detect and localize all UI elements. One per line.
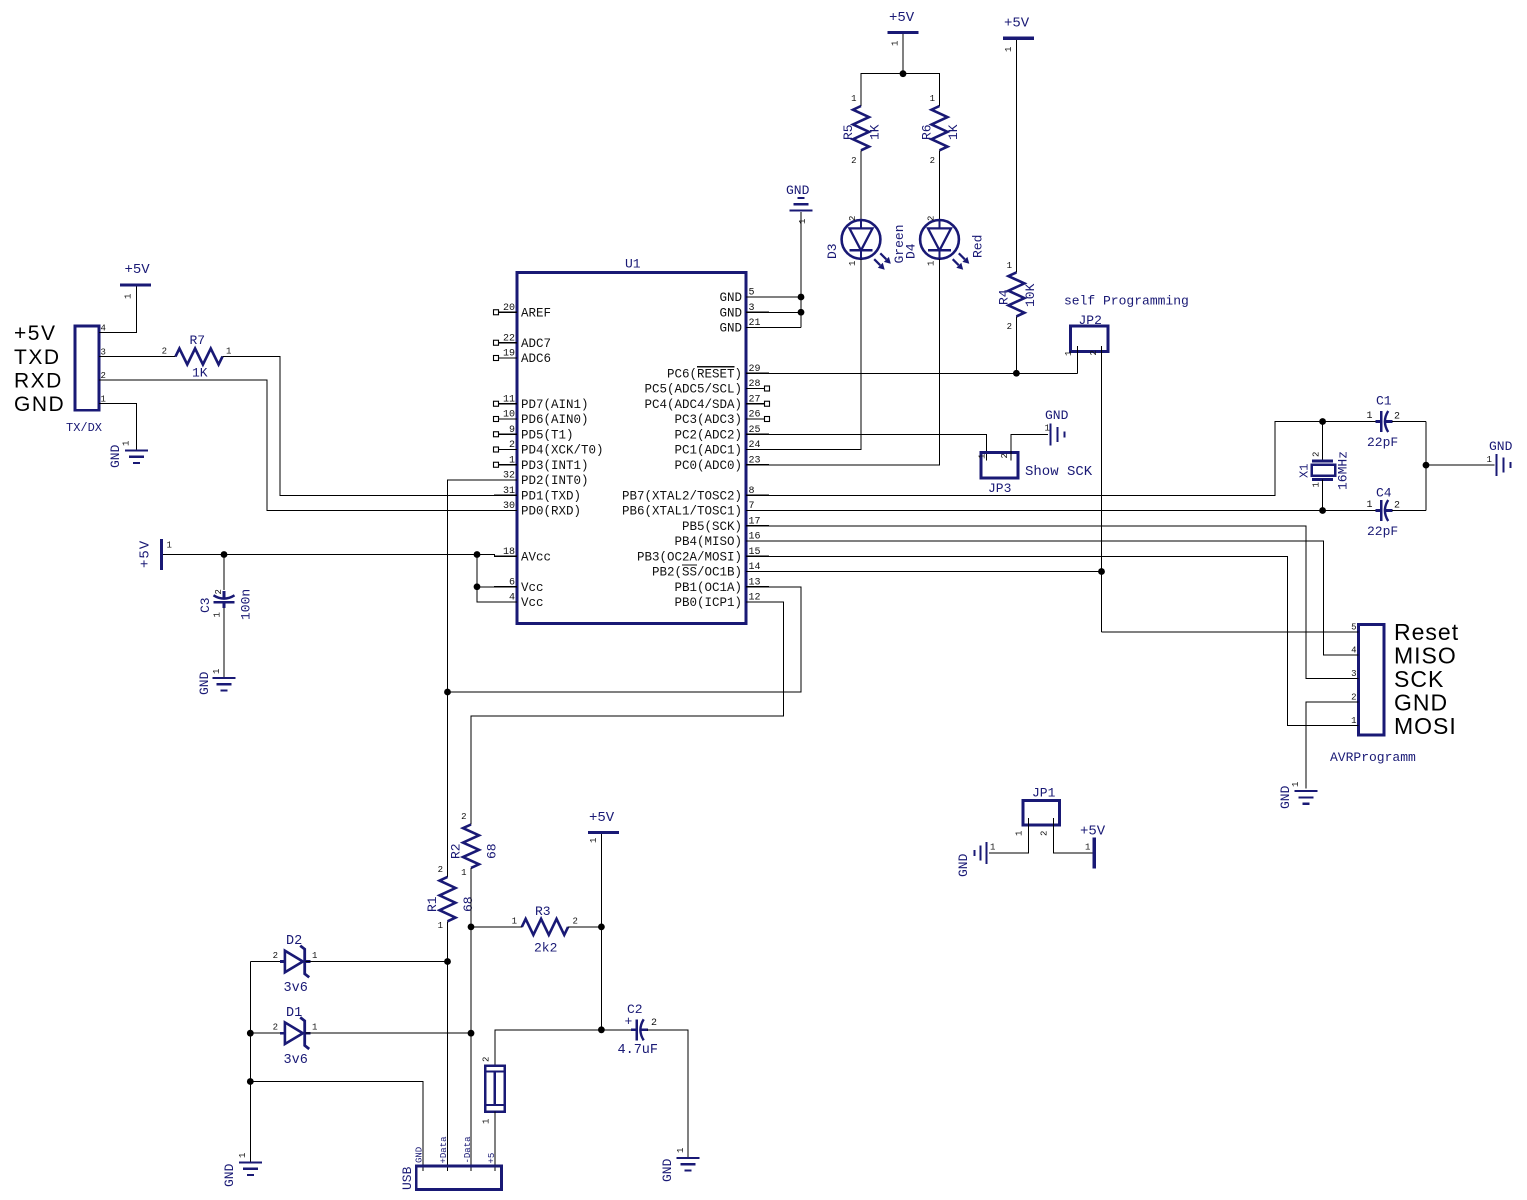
svg-text:GND: GND — [719, 322, 742, 336]
wire SCK net — [769, 526, 1336, 679]
ic U1 pin 19 ADC6 — [499, 357, 518, 359]
power +5V (JP1) — [1093, 837, 1096, 868]
svg-text:22pF: 22pF — [1367, 524, 1398, 539]
svg-text:PB4(MISO): PB4(MISO) — [674, 535, 742, 549]
svg-text:31: 31 — [503, 486, 515, 497]
svg-text:+5V: +5V — [889, 10, 915, 26]
power +5V (TX/DX) — [120, 283, 151, 286]
svg-text:1: 1 — [122, 441, 132, 446]
wire C3 bottom — [223, 608, 225, 678]
ic U1 pin 1 PD3(INT1) — [499, 464, 518, 466]
resistor R1 — [440, 877, 456, 921]
diode D2 — [280, 960, 285, 963]
svg-text:R2: R2 — [449, 843, 464, 859]
svg-text:22pF: 22pF — [1367, 435, 1398, 450]
svg-text:PC1(ADC1): PC1(ADC1) — [674, 444, 742, 458]
connector JP1 body — [1023, 801, 1059, 825]
wire GND pin3 — [769, 311, 801, 313]
svg-text:2: 2 — [509, 440, 515, 451]
crystal X1 — [1312, 459, 1333, 462]
wire X1 bottom lead — [1322, 479, 1324, 510]
ic U1 pin 3 GND — [746, 311, 769, 313]
junction Vcc pin6 — [474, 583, 481, 590]
ic U1 pin 21 GND — [746, 327, 769, 329]
svg-text:1: 1 — [1085, 843, 1090, 853]
wire C2 right — [647, 1030, 688, 1157]
svg-text:2: 2 — [1007, 322, 1012, 332]
svg-text:2: 2 — [438, 865, 443, 875]
svg-text:3: 3 — [749, 303, 755, 314]
junction gnd branch — [247, 1078, 254, 1085]
junction reset — [1013, 370, 1020, 377]
connector USB body — [416, 1166, 501, 1189]
svg-text:15: 15 — [749, 547, 761, 558]
svg-text:30: 30 — [503, 501, 515, 512]
junction D1 anode — [247, 1030, 254, 1037]
svg-text:3: 3 — [1351, 669, 1356, 679]
connector JP2 body — [1070, 326, 1108, 351]
ic U1 pin 9 PD5(T1) — [499, 433, 518, 435]
wire Vcc pin6 — [477, 586, 494, 588]
wire R2 to USB DMINUS — [470, 868, 472, 1171]
svg-text:JP2: JP2 — [1079, 313, 1102, 328]
svg-text:RXD: RXD — [14, 370, 63, 393]
svg-text:5: 5 — [1351, 622, 1356, 632]
ic U1 pin 11 PD7(AIN1) — [499, 403, 518, 405]
svg-text:16MHz: 16MHz — [1336, 451, 1351, 490]
svg-text:R1: R1 — [425, 896, 440, 912]
ic U1 pin 4 Vcc — [494, 601, 517, 603]
led D4 — [920, 220, 959, 259]
svg-text:GND: GND — [1394, 690, 1448, 716]
wire bottom node to C4 — [1323, 510, 1376, 512]
junction gnd5 — [798, 294, 805, 301]
svg-text:C2: C2 — [627, 1002, 643, 1017]
svg-text:MISO: MISO — [1394, 643, 1457, 669]
svg-text:PB7(XTAL2/TOSC2): PB7(XTAL2/TOSC2) — [622, 489, 742, 503]
resistor R7 — [176, 349, 223, 365]
svg-text:GND: GND — [1278, 785, 1293, 809]
svg-text:GND: GND — [197, 671, 212, 695]
svg-text:1: 1 — [461, 868, 466, 878]
svg-text:PB2(SS/OC1B): PB2(SS/OC1B) — [652, 566, 742, 580]
ic U1 pin 29 PC6(RESET) — [746, 372, 769, 374]
ic U1 pin 17 PB5(SCK) — [746, 525, 769, 527]
svg-text:27: 27 — [749, 394, 761, 405]
wire to gnd — [1426, 464, 1495, 466]
wire PB0 net — [471, 602, 783, 825]
capacitor C4 — [1376, 509, 1382, 512]
svg-text:D2: D2 — [286, 934, 302, 949]
svg-text:+5V: +5V — [589, 810, 615, 826]
svg-text:PB5(SCK): PB5(SCK) — [682, 520, 742, 534]
svg-text:2: 2 — [651, 1018, 657, 1029]
svg-text:1K: 1K — [192, 366, 208, 381]
svg-text:TXD: TXD — [14, 346, 61, 369]
svg-text:AREF: AREF — [521, 306, 551, 320]
wire R1 to USB DPLUS — [447, 921, 449, 1171]
wire X1 top lead — [1322, 422, 1324, 460]
junction R3 tap — [468, 924, 475, 931]
svg-text:+5V: +5V — [1004, 16, 1030, 32]
svg-text:19: 19 — [503, 349, 515, 360]
svg-text:-Data: -Data — [463, 1136, 473, 1164]
svg-text:1K: 1K — [868, 124, 883, 140]
capacitor C1 — [1376, 420, 1382, 423]
junction C2 node — [598, 1026, 605, 1033]
power +5V (LEDs) — [888, 31, 919, 34]
svg-text:10K: 10K — [1023, 283, 1038, 307]
wire MISO net — [769, 541, 1336, 655]
power +5V (R3) — [588, 831, 619, 834]
svg-text:PC6(RESET): PC6(RESET) — [667, 367, 742, 381]
connector JP2 pin1 — [1076, 346, 1078, 373]
capacitor C3 — [223, 591, 226, 599]
wire D2 anode — [250, 961, 284, 963]
svg-text:GND: GND — [14, 393, 65, 416]
svg-text:D4: D4 — [904, 243, 919, 259]
svg-text:29: 29 — [749, 364, 761, 375]
svg-text:PB0(ICP1): PB0(ICP1) — [674, 596, 742, 610]
junction LED rail — [900, 70, 907, 77]
connector JP2 pin2 — [1101, 346, 1103, 632]
ic U1 body — [517, 273, 746, 624]
svg-text:+5V: +5V — [14, 322, 56, 345]
svg-text:PC5(ADC5/SCL): PC5(ADC5/SCL) — [644, 383, 742, 397]
fuse F1 — [485, 1066, 505, 1112]
svg-text:13: 13 — [749, 577, 761, 588]
wire D1 cathode — [305, 1032, 471, 1034]
ic U1 pin 14 PB2(SS/OC1B) — [746, 571, 769, 573]
svg-text:26: 26 — [749, 410, 761, 421]
svg-text:3v6: 3v6 — [284, 1053, 308, 1068]
wire PB7 net — [769, 422, 1323, 496]
wire to gnd corner — [249, 1033, 251, 1081]
junction gnd3 — [798, 309, 805, 316]
svg-text:Show SCK: Show SCK — [1025, 464, 1093, 480]
ground (C2) — [677, 1157, 700, 1159]
svg-text:100n: 100n — [239, 589, 254, 620]
connector TX/DX pin 3 — [99, 356, 122, 358]
wire R3 left — [471, 926, 522, 928]
svg-text:+5V: +5V — [138, 540, 154, 568]
ic U1 pin 16 PB4(MISO) — [746, 540, 769, 542]
svg-text:1: 1 — [1064, 351, 1074, 356]
wire TXD net — [223, 357, 495, 496]
wire JP2 to Reset pin — [1102, 631, 1336, 633]
wire C2 left — [601, 1029, 632, 1031]
svg-text:ADC7: ADC7 — [521, 337, 551, 351]
connector AVRProgramm pin 3 — [1336, 678, 1359, 680]
svg-text:1: 1 — [482, 1119, 492, 1124]
svg-text:1: 1 — [589, 838, 599, 843]
wire GND pin21 — [769, 327, 801, 329]
wire left vertical — [249, 962, 251, 1034]
svg-text:MOSI: MOSI — [1394, 713, 1457, 739]
svg-text:+Data: +Data — [439, 1136, 449, 1164]
wire pin1 to gnd — [122, 404, 137, 451]
ic U1 pin 20 AREF — [499, 311, 518, 313]
svg-text:1: 1 — [1291, 782, 1301, 787]
svg-text:GND: GND — [956, 853, 971, 877]
svg-text:PD0(RXD): PD0(RXD) — [521, 505, 581, 519]
svg-text:1: 1 — [927, 261, 937, 266]
svg-text:R7: R7 — [190, 333, 206, 348]
wire C4 to right — [1392, 510, 1426, 512]
ic U1 pin 27 PC4(ADC4/SDA) — [746, 403, 765, 405]
wire pin3 to R7 — [122, 356, 176, 358]
svg-text:68: 68 — [485, 843, 500, 859]
wire C3 top — [223, 555, 225, 591]
svg-text:2: 2 — [461, 812, 466, 822]
svg-text:GND: GND — [1045, 408, 1069, 423]
svg-text:1: 1 — [851, 94, 856, 104]
svg-text:1K: 1K — [946, 124, 961, 140]
wire PB1 net — [448, 587, 802, 692]
resistor R2 — [463, 825, 479, 868]
svg-text:2: 2 — [848, 216, 858, 221]
svg-text:1: 1 — [978, 454, 988, 459]
ic U1 pin 23 PC0(ADC0) — [746, 464, 769, 466]
svg-text:D3: D3 — [825, 243, 840, 259]
svg-text:1: 1 — [509, 455, 515, 466]
svg-text:1: 1 — [1045, 424, 1050, 434]
junction X1 top — [1319, 418, 1326, 425]
ground (USB) — [239, 1161, 262, 1163]
svg-text:68: 68 — [461, 896, 476, 912]
svg-text:GND: GND — [1489, 439, 1513, 454]
svg-text:Vcc: Vcc — [521, 581, 544, 595]
junction D2 tap — [444, 958, 451, 965]
svg-text:Reset: Reset — [1394, 619, 1459, 645]
svg-text:TX/DX: TX/DX — [66, 421, 102, 435]
ground (TX/DX) — [125, 449, 148, 451]
svg-text:1: 1 — [1004, 47, 1014, 52]
wire +5V down to C2 node — [600, 927, 602, 1030]
svg-text:7: 7 — [749, 501, 755, 512]
svg-text:+5: +5 — [487, 1153, 497, 1164]
ic U1 pin 8 PB7(XTAL2/TOSC2) — [746, 494, 769, 496]
svg-text:D1: D1 — [286, 1006, 302, 1021]
wire top node to C1 — [1323, 421, 1376, 423]
svg-text:1: 1 — [438, 921, 443, 931]
svg-text:20: 20 — [503, 303, 515, 314]
wire RESET net — [769, 372, 1077, 374]
svg-text:2: 2 — [273, 1023, 278, 1033]
ic U1 pin 32 PD2(INT0) — [494, 479, 517, 481]
wire PC2 to JP3 — [769, 434, 987, 460]
svg-text:2: 2 — [1351, 692, 1356, 702]
svg-text:11: 11 — [503, 394, 515, 405]
wire D1 anode — [250, 1032, 284, 1034]
ground (C3) — [213, 677, 236, 679]
ic U1 pin 30 PD0(RXD) — [494, 510, 517, 512]
svg-text:8: 8 — [749, 486, 755, 497]
svg-text:3: 3 — [101, 348, 106, 358]
wire +5V to R4 — [1015, 40, 1017, 272]
svg-text:1: 1 — [848, 261, 858, 266]
diode D1 — [280, 1032, 285, 1035]
svg-text:GND: GND — [786, 183, 810, 198]
svg-text:1: 1 — [312, 1023, 317, 1033]
ic U1 pin 12 PB0(ICP1) — [746, 601, 769, 603]
connector AVRProgramm pin 5 — [1336, 631, 1359, 633]
svg-text:4: 4 — [509, 593, 515, 604]
svg-text:AVRProgramm: AVRProgramm — [1330, 750, 1416, 765]
svg-text:PB6(XTAL1/TOSC1): PB6(XTAL1/TOSC1) — [622, 505, 742, 519]
junction gnd tap — [1423, 462, 1430, 469]
wire PB2 net — [769, 571, 1102, 573]
wire +5V down — [902, 34, 904, 74]
wire +5V to pin4 — [122, 287, 137, 333]
connector AVRProgramm pin 1 — [1336, 724, 1359, 726]
ic U1 pin 6 Vcc — [494, 586, 517, 588]
svg-text:28: 28 — [749, 379, 761, 390]
connector AVRProgramm body — [1359, 625, 1384, 736]
svg-text:25: 25 — [749, 425, 761, 436]
svg-text:SCK: SCK — [1394, 666, 1444, 692]
svg-text:1: 1 — [798, 219, 808, 224]
svg-text:PB1(OC1A): PB1(OC1A) — [674, 581, 742, 595]
wire +5V down to R3 — [600, 834, 602, 927]
svg-text:1: 1 — [990, 843, 995, 853]
svg-text:1: 1 — [930, 94, 935, 104]
svg-text:GND: GND — [660, 1158, 675, 1182]
svg-text:+5V: +5V — [125, 262, 151, 278]
wire LED rail — [861, 74, 940, 106]
svg-text:4: 4 — [101, 324, 106, 334]
wire C1 to right — [1392, 421, 1426, 423]
svg-text:AVcc: AVcc — [521, 550, 551, 564]
connector JP1 pin1 wire — [989, 818, 1029, 853]
svg-text:1: 1 — [891, 41, 901, 46]
wire D3 to PC1 — [769, 259, 861, 450]
wire GND pin to ground — [1306, 702, 1336, 788]
svg-text:1: 1 — [213, 612, 223, 617]
resistor R6 — [932, 106, 948, 150]
svg-text:2: 2 — [214, 589, 224, 594]
svg-text:1: 1 — [1351, 716, 1356, 726]
svg-text:1: 1 — [212, 669, 222, 674]
svg-text:R3: R3 — [535, 904, 551, 919]
svg-text:PC3(ADC3): PC3(ADC3) — [674, 413, 742, 427]
ic U1 pin 7 PB6(XTAL1/TOSC1) — [746, 510, 769, 512]
svg-text:2: 2 — [927, 216, 937, 221]
svg-text:23: 23 — [749, 455, 761, 466]
svg-text:6: 6 — [509, 577, 515, 588]
ic U1 pin 10 PD6(AIN0) — [499, 418, 518, 420]
ic U1 pin 25 PC2(ADC2) — [746, 433, 769, 435]
svg-text:1: 1 — [312, 951, 317, 961]
ic U1 pin 15 PB3(OC2A/MOSI) — [746, 555, 769, 557]
svg-text:2: 2 — [1040, 831, 1050, 836]
svg-text:C3: C3 — [198, 597, 213, 613]
svg-text:PB3(OC2A/MOSI): PB3(OC2A/MOSI) — [637, 550, 742, 564]
wire R5 to D3 — [860, 150, 862, 220]
svg-text:GND: GND — [719, 291, 742, 305]
svg-text:1: 1 — [512, 917, 517, 927]
junction R3 right — [598, 924, 605, 931]
svg-text:32: 32 — [503, 471, 515, 482]
svg-text:Vcc: Vcc — [521, 596, 544, 610]
svg-text:GND: GND — [415, 1147, 425, 1163]
resistor R3 — [522, 919, 568, 935]
svg-text:2: 2 — [1312, 452, 1322, 457]
svg-text:2: 2 — [930, 156, 935, 166]
svg-text:PD6(AIN0): PD6(AIN0) — [521, 413, 589, 427]
wire to USB GND — [250, 1082, 423, 1172]
svg-text:1: 1 — [167, 541, 172, 551]
svg-text:1: 1 — [676, 1148, 686, 1153]
led D3 — [842, 220, 881, 259]
power +5V (R4) — [1003, 37, 1034, 40]
wire +5V rail to AVcc — [163, 555, 517, 557]
svg-text:2k2: 2k2 — [534, 941, 557, 956]
wire R3 right — [568, 926, 601, 928]
connector TX/DX body — [75, 326, 99, 410]
svg-text:10: 10 — [503, 410, 515, 421]
svg-text:5: 5 — [749, 288, 755, 299]
svg-text:1: 1 — [124, 294, 134, 299]
svg-text:PD2(INT0): PD2(INT0) — [521, 474, 589, 488]
wire D4 to PC0 — [769, 259, 940, 465]
svg-text:12: 12 — [749, 593, 761, 604]
svg-text:2: 2 — [573, 917, 578, 927]
svg-text:2: 2 — [162, 347, 167, 357]
junction PB2 to JP2 — [1098, 568, 1105, 575]
wire right vertical — [1425, 422, 1427, 511]
svg-text:R5: R5 — [841, 124, 856, 140]
ground (XTAL) — [1495, 454, 1497, 476]
wire PB6 net — [769, 510, 1323, 512]
resistor R5 — [853, 106, 869, 150]
svg-text:1: 1 — [226, 347, 231, 357]
svg-text:1: 1 — [1366, 500, 1372, 511]
svg-text:9: 9 — [509, 425, 515, 436]
svg-text:2: 2 — [1089, 350, 1099, 355]
svg-text:C1: C1 — [1376, 394, 1392, 409]
svg-text:1: 1 — [1007, 261, 1012, 271]
wire R4 to reset — [1015, 316, 1017, 373]
wire fuse to USB — [494, 1112, 496, 1171]
ic U1 pin 2 PD4(XCK/T0) — [499, 449, 518, 451]
ic U1 pin 22 ADC7 — [499, 342, 518, 344]
svg-text:PC4(ADC4/SDA): PC4(ADC4/SDA) — [644, 398, 742, 412]
svg-text:2: 2 — [1394, 412, 1400, 423]
wire Vcc branch — [477, 555, 494, 603]
svg-text:PD1(TXD): PD1(TXD) — [521, 489, 581, 503]
junction X1 bottom — [1319, 507, 1326, 514]
ic U1 pin 26 PC3(ADC3) — [746, 418, 765, 420]
svg-text:21: 21 — [749, 318, 761, 329]
svg-text:X1: X1 — [1298, 464, 1312, 478]
wire down to ground — [249, 1082, 251, 1163]
ic U1 pin 13 PB1(OC1A) — [746, 586, 769, 588]
junction Vcc branch — [474, 551, 481, 558]
connector AVRProgramm pin 2 — [1336, 701, 1359, 703]
power +5V (AVcc) — [160, 539, 163, 570]
svg-text:PD3(INT1): PD3(INT1) — [521, 459, 589, 473]
svg-text:GND: GND — [222, 1163, 237, 1187]
svg-text:GND: GND — [719, 306, 742, 320]
capacitor C2 — [631, 1028, 637, 1031]
svg-text:U1: U1 — [625, 257, 641, 272]
wire R6 to D4 — [939, 150, 941, 220]
wire C2 node to fuse — [495, 1030, 601, 1066]
connector TX/DX pin 1 — [99, 403, 122, 405]
ic U1 pin 28 PC5(ADC5/SCL) — [746, 388, 765, 390]
svg-text:PD4(XCK/T0): PD4(XCK/T0) — [521, 444, 604, 458]
